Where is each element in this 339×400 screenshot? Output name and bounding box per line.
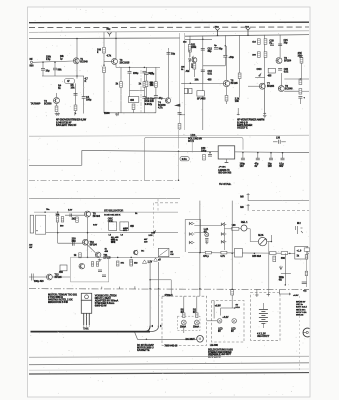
svg-text:7905-642-18: 7905-642-18 (164, 344, 178, 347)
wire stub bottom x=118.4 (117, 112, 119, 116)
wire C8 down (155, 97, 157, 113)
wire switch box top (185, 219, 201, 221)
wire y=79 link (284, 78, 309, 80)
svg-text:DC MOT: DC MOT (186, 338, 196, 341)
svg-text:TA7368P: TA7368P (31, 103, 41, 106)
transistor T10 osc2 (83, 239, 89, 245)
resistor R41 pair b (61, 217, 64, 222)
resistor R48 (116, 261, 119, 266)
wire x=121 down (120, 87, 122, 113)
wire riser x=158.6 (158, 262, 160, 326)
svg-text:TA81: TA81 (83, 327, 89, 330)
svg-text:B 345 OSZ 455 K: B 345 OSZ 455 K (104, 213, 121, 216)
wire main rail y=151 (82, 150, 309, 152)
wire C16 down (146, 75, 148, 82)
wire x=104 down (103, 73, 105, 114)
svg-text:+4.2V: +4.2V (222, 316, 228, 319)
wire meter right (267, 241, 271, 243)
wire T5 base bus y=83.5 (181, 82, 223, 84)
wire y=85.8 link (284, 90, 298, 92)
resistor R45 (130, 260, 133, 266)
resistor R42 mid (76, 217, 79, 222)
IC box FL2 (268, 68, 275, 73)
wire stub x=264.8 (264, 112, 266, 115)
TO-220 package drawing TA81 (81, 293, 91, 326)
wire C9 stub right (180, 114, 186, 116)
capacitor C40 in box (98, 270, 102, 272)
transistor T3 AF output (112, 58, 118, 64)
diode D2 arrow (258, 73, 262, 77)
capacitor C34 filter (281, 158, 285, 160)
wire y=91 link2 (284, 90, 309, 92)
rule bottom 1 (29, 356, 309, 357)
node T1 emitter junction (76, 75, 78, 77)
wire osc bus y=232.6 (46, 232, 178, 234)
underline UB8 (190, 136, 197, 138)
node osc rail x=57.7 (57, 211, 59, 213)
node T1 riser on rail (76, 38, 78, 40)
capacitor C1 input coupling (41, 69, 45, 71)
node x=285.3 end (285, 284, 287, 286)
svg-text:5V-STAB.: 5V-STAB. (219, 182, 231, 186)
resistor R7 (74, 105, 77, 111)
resistor R10 (103, 67, 106, 73)
svg-text:1N60: 1N60 (104, 112, 110, 115)
resistor R40 pair a (56, 217, 59, 222)
wire AF lower rail (42, 75, 84, 77)
node x=75.5 bottom (75, 113, 77, 115)
node rail x=248 (247, 34, 249, 36)
svg-text:0.047µ: 0.047µ (145, 103, 153, 106)
resistor R15 x=179.5 (178, 124, 181, 130)
wire R14 down (133, 110, 135, 113)
wire long x=199.9 lower (199, 201, 201, 296)
wire RF sub rail y=39.3 (185, 38, 212, 40)
wire long vertical x=178.5 (178, 130, 180, 149)
svg-text:4.7k: 4.7k (220, 255, 225, 258)
switch contact S1c (189, 241, 194, 244)
switch contact S2c (221, 240, 226, 243)
lamp LA1 circle-cross (205, 233, 209, 237)
wire y=200.6 to edge (248, 200, 309, 202)
wire x=202.8 gap (202, 72, 204, 84)
terminal bar x=238.2 (237, 114, 240, 116)
rule bottom 4 (29, 373, 309, 374)
switch box S5 with diagonal (158, 248, 169, 256)
node x=232.2 row (231, 252, 233, 254)
test triangle TP1 (142, 260, 146, 264)
transistor T9 osc (85, 211, 91, 217)
resistor R20 x=189.7 (188, 45, 191, 51)
resistor R56 (273, 256, 276, 262)
oscillator inner box (71, 257, 109, 282)
svg-text:0.6V: 0.6V (93, 225, 98, 227)
wire relay out (247, 228, 250, 230)
node x=282.5 (282, 152, 284, 154)
wire dashed control bus (29, 26, 309, 29)
node NF input terminal (30, 61, 32, 63)
wire right col x=301.5 a (301, 52, 303, 58)
resistor R51 row (221, 251, 227, 254)
resistor R61 in box A (196, 313, 198, 318)
wire AF section top rail (29, 37, 180, 40)
node x=202.8 y=39.3 (202, 39, 204, 41)
wire B corner drop (220, 308, 222, 316)
svg-text:NF-ENDVERSTÄRKER 0,3W: NF-ENDVERSTÄRKER 0,3W (56, 119, 87, 122)
svg-text:455: 455 (208, 79, 213, 82)
wire vertical right of SI1 (191, 137, 193, 152)
wire x=129.5 to filter (129, 73, 131, 96)
resistor R14 below CF1 (132, 104, 135, 110)
capacitor C17 on x=168.5 (167, 53, 171, 55)
capacitor C50 right (302, 282, 307, 284)
dashed box A cassette motor unit (162, 296, 207, 345)
capacitor C42 base (73, 241, 75, 246)
wire T13 out (52, 276, 70, 278)
svg-text:M1%: M1% (258, 235, 263, 237)
arrow battery legend (279, 290, 290, 295)
stub MOT minus (247, 204, 250, 211)
antenna tap symbol 2 (246, 28, 250, 35)
node right col y=91 (300, 90, 302, 92)
wire x=190 col RF edge (189, 36, 191, 57)
wire AF mid bus y=67.4 (116, 66, 160, 68)
capacitor C13 row (214, 48, 218, 50)
wire between A and B (207, 320, 218, 322)
node mid bus x=144.4 (144, 67, 146, 69)
wire T4b emitter (193, 69, 195, 77)
wire stub x=238.2 (237, 112, 239, 115)
wire R22 down (226, 101, 228, 104)
wire T8 collector up (280, 73, 282, 86)
wire x=225.3 top col (224, 35, 226, 55)
wire switch col x=200.7 (200, 220, 202, 253)
wire contacts link y=225.7 (194, 225, 221, 227)
capacitor C35 horizontal top right (273, 140, 286, 144)
resistor R29 (299, 79, 302, 85)
ground below T11 (98, 259, 102, 262)
antenna coil box (36, 215, 46, 234)
node riser x=150.1 y=279.8 (149, 279, 151, 281)
node row x=87.5 (87, 257, 89, 259)
node right col y=79 (300, 78, 302, 80)
switch contact S2b (221, 232, 226, 235)
svg-text:455: 455 (130, 99, 135, 102)
wire T10 T11 link (88, 245, 96, 253)
svg-text:30p: 30p (219, 48, 224, 51)
resistor R18 x=146.5 (145, 81, 148, 87)
wire R59 to relay (239, 228, 241, 230)
IF filter box FL1 (197, 91, 204, 96)
box right edge K2 (295, 247, 308, 260)
wire T9 emitter down x=87.5 (87, 217, 89, 257)
wire switch col x=224.4 (223, 222, 225, 250)
tuning meter M1 (258, 237, 267, 245)
transistor T6 mixer (276, 58, 282, 64)
resistor R54 x=232.2 (231, 290, 234, 296)
lamp L4 circle (232, 319, 237, 324)
node divider x=199.9 (199, 288, 201, 290)
wire T3 base (104, 60, 112, 62)
wire dashed col x=153.3 (152, 203, 154, 248)
transistor T4b upper (192, 57, 197, 62)
battery stub 2 (267, 293, 270, 297)
resistor R46 in box (91, 262, 93, 267)
node box B corner (234, 307, 236, 309)
wire R7 stub (75, 111, 77, 114)
dashed vertical bottom right (299, 296, 301, 372)
resistor R11 (120, 82, 123, 88)
capacitor C10 x=202.8 (201, 49, 205, 51)
wire C7 down (143, 98, 145, 113)
wire C30 up (209, 152, 211, 154)
wire y=273.4 seg (281, 272, 291, 274)
wire y=77.4 seg (255, 76, 265, 78)
resistor R31 reg (203, 155, 206, 161)
node junction x=55 (54, 61, 56, 63)
pot circle VR1 (0, 0, 1, 1)
resistor R23 x=239.6 (238, 73, 241, 79)
transistor T14 osc (134, 250, 138, 255)
wire input to T1 base (33, 61, 73, 62)
wire osc rail y=212 (34, 211, 178, 213)
wire x=168.5 drop (168, 48, 170, 98)
resistor R9 on x=104 (103, 48, 106, 54)
node row x=254.4 (254, 253, 256, 255)
node x=199.9 divider (199, 288, 201, 290)
wire C2 down (54, 62, 56, 68)
riser curve 1 (144, 326, 150, 332)
wire T5 collector up (226, 46, 228, 80)
svg-text:25mA: 25mA (193, 326, 199, 329)
capacitor C15 x=202.8 (201, 70, 205, 72)
wire main rail step low (29, 164, 82, 166)
battery cell stack BT1 (259, 303, 268, 328)
node x=199.9 row (199, 252, 201, 254)
lamp L3 circle (217, 319, 222, 324)
wire RF section top rail (185, 35, 309, 37)
wire B corner horiz (221, 307, 235, 309)
resistor R25 pair b (264, 39, 267, 45)
resistor R60 in box A (183, 313, 185, 318)
svg-text:M: M (199, 337, 202, 341)
resistor R44 (79, 253, 82, 258)
wire osc input (29, 276, 47, 278)
node divider end x=178.5 (178, 180, 180, 182)
resistor R52 row (270, 252, 277, 255)
resistor R47 in box (96, 262, 98, 267)
tick on divider 3 (101, 287, 103, 289)
capacitor C41 in box (102, 275, 106, 277)
capacitor C33 filter (269, 158, 273, 160)
crystal box X2 (120, 222, 128, 231)
capacitor C23 polarized (298, 97, 302, 99)
wire riser x=116 from rail (115, 32, 117, 39)
transistor T7 IF amp (259, 83, 265, 89)
rule bottom 3 (29, 369, 309, 370)
box pair left col (184, 88, 192, 93)
capacitor C3 electrolytic (74, 94, 78, 96)
wire D1 down (189, 61, 191, 70)
wire T7 emitter down (264, 89, 266, 113)
node row x=131.2 (130, 257, 132, 259)
svg-text:68k10k: 68k10k (150, 82, 155, 87)
small box X3 (60, 265, 67, 271)
wire riser x=150.1 (149, 262, 151, 326)
node x=271 (270, 152, 272, 154)
svg-text:+P OSC: +P OSC (219, 166, 227, 168)
node x=257.8 (257, 152, 259, 154)
svg-text:10µ: 10µ (171, 53, 176, 56)
wire x=268.8 down (268, 242, 270, 293)
switch contact S1a (189, 222, 194, 225)
wire long x=232.2 lower (231, 201, 233, 300)
resistor R17 x=194.4 (193, 64, 196, 70)
svg-text:4.7k: 4.7k (107, 55, 112, 58)
node y=98.5 x=153.9 (153, 98, 155, 100)
resistor R22 T5 emitter (225, 96, 228, 102)
ground under regulator IC1 (225, 162, 229, 164)
dashed box C battery (251, 293, 281, 341)
wire C1 down (42, 62, 44, 68)
crystal box X1 (109, 222, 117, 231)
svg-text:xV: xV (158, 259, 161, 262)
wire long vertical x=202.8 (202, 36, 204, 130)
wire T2 collector up (56, 93, 58, 98)
wire x=57.7 long col (57, 222, 59, 243)
wire box B inlet (213, 301, 215, 319)
voltage regulator IC1 box (218, 146, 235, 159)
wire T10 base (58, 242, 83, 244)
capacitor C43 under lamp (205, 238, 208, 240)
capacitor C7 (142, 97, 146, 99)
emitter feedback box L1 (65, 79, 75, 84)
relay coil circle K3 (241, 225, 247, 231)
wire R28 down (301, 63, 303, 79)
capacitor C2 second (53, 68, 57, 70)
wire T3 collector up x=116 (115, 38, 117, 58)
capacitor C4 (82, 97, 86, 99)
wire x=144.4 down (143, 87, 145, 96)
node row x=117.7 (117, 257, 119, 259)
wire x=282.5 stub (282, 153, 284, 158)
wire x=242.9 stub (242, 153, 244, 159)
wire dashed y=210.7 (252, 210, 309, 212)
wire x=300.4 down (299, 98, 301, 104)
wire T4 base y=98.5 (144, 98, 165, 100)
resistor R59 horiz (232, 227, 239, 230)
wire x=146.5 column (146, 67, 148, 73)
wire thin rail y=136 (29, 135, 309, 136)
wire T3 emitter down (115, 64, 117, 67)
lamp L2 circle-cross (194, 320, 199, 325)
tick on divider 2 (134, 286, 136, 289)
svg-text:500: 500 (30, 65, 35, 68)
small box fuse SI1 (180, 157, 189, 161)
svg-text:+6.0V: +6.0V (293, 295, 299, 297)
wire x=155.9 col (155, 67, 157, 81)
IC filter box CF1 (128, 97, 139, 103)
wire section divider x=179.5 (179, 33, 181, 130)
capacitor C9 on x=179.5 (178, 113, 182, 115)
resistor R27 pair d (264, 52, 267, 58)
transistor T12 in box (79, 263, 85, 269)
wire switch row y=252.5 (188, 252, 309, 255)
svg-text:LM-380: LM-380 (210, 344, 219, 347)
wire stub x=238.2 bottom (237, 108, 239, 115)
resistor R57 right (305, 255, 307, 259)
transistor T2 AF driver (54, 98, 60, 104)
node row x=289.8 (289, 253, 291, 255)
wire T9 base (65, 214, 85, 216)
node motor line (146, 339, 148, 341)
fuse SI2 under bus (108, 32, 112, 36)
svg-text:4.7µ: 4.7µ (150, 73, 155, 76)
wire C1 to rail (42, 70, 44, 76)
wire T7 base from left (248, 85, 259, 87)
wire to R59 (224, 228, 231, 230)
lamp L1 circle-cross (181, 320, 186, 325)
capacitor C20 (270, 44, 274, 46)
node x=178.5 on rail (178, 151, 180, 153)
resistor R53 row (281, 252, 288, 255)
5V STAB box outline (145, 137, 244, 180)
node osc rail x=45.1 (44, 211, 46, 213)
resistor R49 (130, 261, 133, 266)
wire to battery stub 1 (256, 289, 258, 292)
dashed inner box in A (177, 316, 200, 330)
wire stub bottom x=74.8 (74, 112, 76, 116)
dashed box B lamp unit (212, 301, 245, 343)
capacitor C14 electrolytic (223, 56, 227, 58)
wire C5 up (129, 67, 131, 71)
resistor R50 row (205, 251, 211, 254)
wire osc to dashed col (157, 199, 159, 212)
wire x=257.8 stub (257, 153, 259, 158)
wire C2 to rail (54, 70, 56, 76)
resistor R13 (155, 82, 158, 88)
wire lamps to motor (183, 325, 185, 333)
svg-text:25mA: 25mA (180, 326, 186, 329)
svg-text:56k: 56k (58, 69, 63, 72)
wire osc dashed top (155, 202, 180, 204)
riser curve 2 (150, 326, 159, 332)
wire top supply rail bus (29, 21, 309, 24)
node divider x=158.6 (158, 288, 160, 290)
ferrite antenna bar (30, 215, 33, 233)
svg-text:REL 1: REL 1 (241, 221, 248, 224)
svg-text:SFU455: SFU455 (197, 97, 206, 100)
antenna down symbol (279, 266, 282, 270)
antenna tap symbol 1 (215, 28, 219, 35)
wire x=144.4 col (143, 73, 145, 82)
svg-text:+5.8V: +5.8V (215, 305, 221, 308)
stub MOT plus (247, 193, 250, 201)
wire switch box left (184, 220, 186, 253)
capacitor C6 (142, 71, 146, 73)
ground under lamp (205, 241, 209, 244)
wire meter out to edge (270, 235, 272, 242)
rule bottom 2 (29, 363, 309, 365)
capacitor C16 x=146.5 (145, 73, 149, 75)
node meter out (271, 241, 273, 243)
node divider x=232.2 (231, 288, 233, 290)
capacitor C30 reg input (208, 155, 212, 157)
relay box K1 (235, 248, 243, 257)
transistor T13 input (47, 274, 53, 280)
capacitor C24 right col (299, 56, 303, 58)
svg-text:AM: AM (186, 70, 190, 73)
